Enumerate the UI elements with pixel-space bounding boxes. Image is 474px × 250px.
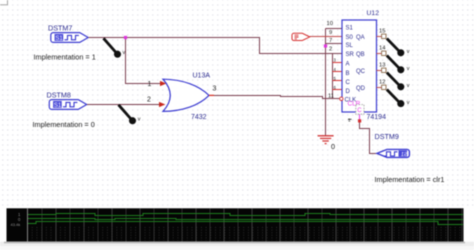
svg-text:DSTM8: DSTM8 xyxy=(47,90,71,99)
svg-text:Implementation = clr1: Implementation = clr1 xyxy=(375,175,445,184)
svg-text:7432: 7432 xyxy=(191,114,207,121)
svg-text:11: 11 xyxy=(328,94,334,100)
svg-text:SR: SR xyxy=(346,52,355,58)
svg-text:DSTM9: DSTM9 xyxy=(375,132,399,141)
svg-text:v: v xyxy=(407,83,410,89)
svg-text:10: 10 xyxy=(327,21,333,27)
svg-text:D: D xyxy=(346,89,351,95)
svg-text:2: 2 xyxy=(329,46,332,52)
svg-text:C: C xyxy=(346,80,351,86)
svg-text:A: A xyxy=(346,62,350,68)
svg-text:v: v xyxy=(123,50,126,56)
svg-text:12: 12 xyxy=(379,80,385,86)
svg-text:Implementation = 0: Implementation = 0 xyxy=(33,120,95,129)
svg-text:1: 1 xyxy=(348,118,351,123)
svg-text:13: 13 xyxy=(379,63,385,69)
svg-text:B: B xyxy=(346,71,350,77)
svg-text:DSTM7: DSTM7 xyxy=(48,24,72,33)
svg-text:v: v xyxy=(407,100,410,106)
svg-text:1: 1 xyxy=(148,81,152,88)
svg-text:QC: QC xyxy=(356,69,366,75)
svg-text:0: 0 xyxy=(331,142,335,151)
svg-text:Implementation = 1: Implementation = 1 xyxy=(34,52,96,61)
svg-text:3: 3 xyxy=(213,86,217,93)
svg-text:U12: U12 xyxy=(367,10,380,17)
svg-text:S1: S1 xyxy=(54,103,62,109)
svg-text:43.4k: 43.4k xyxy=(11,222,21,227)
svg-text:U13A: U13A xyxy=(193,72,211,79)
svg-text:14: 14 xyxy=(379,46,386,52)
svg-text:S1: S1 xyxy=(346,26,354,32)
svg-text:v: v xyxy=(407,49,410,55)
svg-text:15: 15 xyxy=(379,29,385,35)
svg-text:SL: SL xyxy=(346,43,354,49)
svg-text:S1: S1 xyxy=(55,36,63,42)
svg-text:v: v xyxy=(138,117,141,123)
svg-text:9: 9 xyxy=(329,30,332,36)
svg-text:74194: 74194 xyxy=(367,114,387,121)
svg-text:C: C xyxy=(357,108,362,114)
svg-text:QD: QD xyxy=(356,86,366,92)
svg-text:7: 7 xyxy=(329,38,332,44)
svg-text:QB: QB xyxy=(356,52,365,58)
svg-text:2: 2 xyxy=(147,97,151,104)
svg-text:v: v xyxy=(407,66,410,72)
svg-text:QA: QA xyxy=(356,35,365,41)
svg-text:S1: S1 xyxy=(401,152,408,158)
svg-text:S0: S0 xyxy=(346,35,354,41)
